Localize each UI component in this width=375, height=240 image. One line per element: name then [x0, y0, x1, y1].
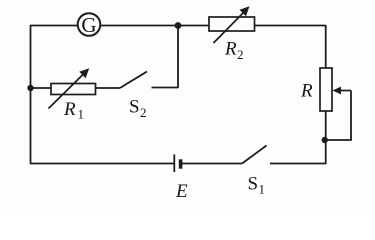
- wire right side upper: [325, 25, 327, 69]
- resistor R1 arrow: [49, 68, 90, 108]
- wire wiper return to main: [325, 139, 352, 141]
- resistor R2 body: [209, 17, 255, 31]
- switch S2 blade: [120, 72, 147, 89]
- rheostat R body: [320, 68, 332, 111]
- svg-text:2: 2: [237, 47, 244, 62]
- svg-text:2: 2: [140, 105, 147, 120]
- wire wiper down: [350, 91, 352, 141]
- switch S1 blade: [242, 146, 267, 164]
- svg-text:R: R: [63, 99, 76, 120]
- wire S2 contact: [152, 87, 179, 89]
- svg-text:1: 1: [78, 107, 85, 122]
- battery E long plate: [173, 155, 175, 173]
- wire R1 to switch S2: [96, 87, 121, 89]
- resistor R2 arrow: [214, 6, 250, 43]
- resistor R1 body: [51, 84, 96, 95]
- wire battery to switch S1: [182, 163, 243, 165]
- svg-text:1: 1: [259, 182, 266, 197]
- svg-text:R: R: [300, 81, 313, 102]
- wire S1 contact to bottom right corner: [270, 163, 326, 165]
- junction node top (S2 branch / top wire): [175, 22, 182, 29]
- galvanometer G: [78, 13, 101, 37]
- wire middle branch left: [31, 87, 53, 89]
- junction node right (wiper / main wire): [322, 137, 328, 143]
- wire left side: [30, 25, 32, 164]
- wire right side lower: [325, 111, 327, 165]
- wire riser S2 to top junction: [177, 25, 179, 88]
- junction node left (R1 branch / left wire): [27, 85, 33, 91]
- wire bottom left to battery: [30, 163, 174, 165]
- svg-text:G: G: [81, 13, 96, 37]
- svg-text:R: R: [224, 39, 237, 60]
- rheostat R wiper arrow: [333, 87, 352, 95]
- wire top side: [30, 25, 326, 27]
- battery E short plate: [179, 159, 183, 168]
- svg-text:E: E: [175, 181, 188, 202]
- svg-text:S: S: [248, 174, 259, 195]
- svg-text:S: S: [129, 97, 140, 118]
